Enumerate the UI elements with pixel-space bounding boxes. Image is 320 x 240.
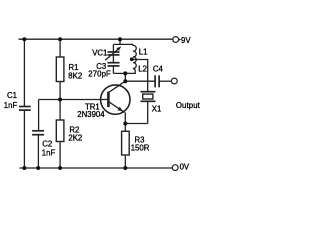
inductor L2 — [133, 57, 136, 74]
wire R1 top lead — [59, 39, 61, 57]
crystal X1 — [141, 92, 156, 102]
capacitor C3 — [108, 63, 120, 66]
svg-text:8K2: 8K2 — [68, 72, 82, 81]
junction tank drop — [118, 37, 122, 41]
wire tank left lower — [112, 66, 114, 74]
svg-text:VC1: VC1 — [92, 48, 107, 57]
wire C2 upper lead — [38, 100, 40, 131]
wire collector vertical — [124, 73, 126, 81]
wire 0V rail — [20, 167, 173, 169]
wire emitter vertical — [124, 112, 126, 123]
junction 0V R3 — [123, 166, 127, 170]
wire coil tap — [132, 60, 147, 92]
svg-text:0V: 0V — [180, 163, 190, 172]
capacitor C4 — [155, 75, 159, 87]
svg-text:C2: C2 — [42, 139, 52, 148]
VC1 arrow — [105, 48, 119, 60]
svg-text:L1: L1 — [139, 47, 148, 56]
wire tank supply drop — [119, 39, 121, 44]
svg-text:270pF: 270pF — [88, 69, 111, 78]
svg-text:2K2: 2K2 — [68, 134, 82, 143]
wire base — [39, 99, 109, 101]
wire R2 bottom lead — [59, 142, 61, 169]
svg-text:Output: Output — [176, 101, 200, 110]
wire tank left middle — [112, 55, 114, 63]
wire crystal lower lead — [147, 101, 149, 123]
ground terminal 0V — [172, 165, 178, 171]
inductor L1 — [133, 44, 136, 57]
svg-text:2N3904: 2N3904 — [77, 110, 105, 119]
wire left rail upper — [23, 39, 25, 106]
svg-text:X1: X1 — [152, 105, 162, 114]
wire collector to C4 — [125, 80, 155, 82]
wire R2 top lead — [59, 100, 61, 121]
wire 9V rail — [19, 38, 173, 40]
junction top rail left — [22, 37, 26, 41]
transistor TR1 — [101, 81, 130, 114]
junction R1 top — [58, 37, 62, 41]
wire C2 lower lead — [37, 135, 39, 168]
resistor R3 — [122, 131, 130, 155]
svg-text:C1: C1 — [7, 91, 17, 100]
wire left rail lower — [23, 111, 25, 168]
wire C4 to output — [159, 80, 171, 82]
svg-text:150R: 150R — [131, 144, 150, 153]
junction emitter node — [123, 122, 127, 126]
wire tank left upper — [112, 44, 114, 52]
variable capacitor VC1 — [108, 52, 120, 55]
svg-text:1nF: 1nF — [42, 149, 56, 158]
svg-text:L2: L2 — [138, 65, 147, 74]
wire tank bottom — [113, 72, 135, 74]
capacitor C1 — [19, 107, 31, 111]
capacitor C2 — [32, 131, 44, 135]
wire R1 bottom lead — [59, 82, 61, 100]
wire R3 top lead — [124, 124, 126, 132]
svg-text:9V: 9V — [181, 36, 191, 45]
wire R3 bottom lead — [124, 155, 126, 168]
wire tank top — [113, 43, 133, 45]
svg-text:1nF: 1nF — [4, 101, 18, 110]
junction 0V C1 — [22, 166, 26, 170]
wire emitter to crystal — [125, 123, 147, 125]
junction coil tap — [130, 57, 134, 61]
junction tank bottom — [123, 71, 127, 75]
power terminal 9V — [173, 37, 179, 43]
resistor R1 — [56, 57, 64, 82]
svg-text:C4: C4 — [153, 65, 164, 74]
resistor R2 — [56, 120, 64, 142]
junction 0V C2 — [36, 166, 40, 170]
junction base node — [58, 98, 62, 102]
junction 0V R2 — [58, 166, 62, 170]
junction collector node — [123, 79, 127, 83]
output terminal — [171, 78, 177, 84]
